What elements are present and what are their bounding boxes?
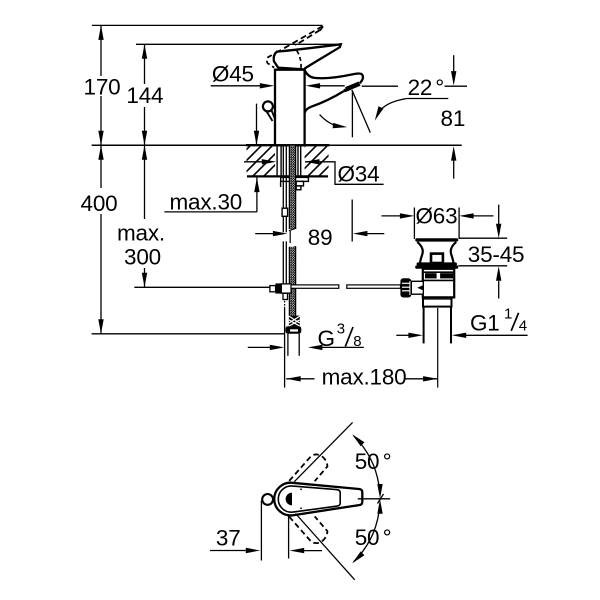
wire: deck bottom line bbox=[247, 175, 328, 177]
wire: handle reference line (144 datum) bbox=[136, 43, 340, 45]
rod clamp bbox=[282, 208, 288, 216]
svg-text:4: 4 bbox=[519, 318, 527, 335]
lever handle raised position (dashed) bbox=[279, 26, 323, 51]
mounting washer below deck bbox=[281, 177, 309, 181]
drain plug neck right bbox=[451, 242, 456, 263]
dim 81 bbox=[453, 55, 455, 72]
svg-text:37: 37 bbox=[216, 525, 241, 550]
svg-text:22: 22 bbox=[408, 75, 433, 100]
dim diam63 bbox=[413, 208, 415, 240]
handle plan recess mark bbox=[286, 493, 292, 506]
svg-text:170: 170 bbox=[84, 74, 121, 99]
plan centerline bbox=[358, 498, 390, 500]
svg-text:°: ° bbox=[435, 75, 444, 100]
drain square tab bbox=[431, 254, 443, 263]
wire: max300 bottom datum bbox=[134, 286, 270, 288]
svg-text:35-45: 35-45 bbox=[468, 242, 525, 267]
lever handle (solid position) bbox=[274, 44, 341, 69]
knob connector bbox=[411, 281, 423, 294]
svg-text:Ø63: Ø63 bbox=[416, 204, 458, 229]
dim 81 reference line bbox=[362, 85, 398, 87]
aerator bbox=[346, 84, 360, 90]
spray flow arc arrow bbox=[320, 115, 343, 127]
svg-text:400: 400 bbox=[81, 191, 118, 216]
svg-text:81: 81 bbox=[441, 106, 466, 131]
svg-text:144: 144 bbox=[126, 83, 163, 108]
G3/8 thread bbox=[287, 334, 289, 356]
dim 37 bbox=[260, 501, 262, 561]
dim 400 bbox=[100, 145, 102, 188]
drain plug head rim bbox=[415, 238, 458, 241]
pop-up rod (vertical, lower) bbox=[282, 241, 284, 284]
drain plug neck left bbox=[417, 242, 422, 263]
pull-rod knob (plan) bbox=[262, 494, 273, 505]
dim max180 bbox=[286, 378, 314, 380]
label 22deg leader bbox=[407, 98, 448, 100]
dim 144 bbox=[144, 44, 146, 84]
dim 89 bbox=[255, 233, 275, 235]
handle rotated +50 (dashed) bbox=[289, 454, 327, 481]
dim max300 bbox=[144, 145, 146, 219]
node: deck cross-section hatch right bbox=[305, 146, 329, 176]
svg-text:8: 8 bbox=[353, 333, 361, 350]
dim 170 bbox=[100, 25, 102, 76]
spout top edge bbox=[305, 70, 363, 83]
knurled adjuster knob bbox=[400, 278, 411, 297]
drain body bbox=[423, 269, 454, 298]
dim diam45 bbox=[211, 85, 262, 87]
hose end connector (lattice) bbox=[289, 316, 300, 327]
angle line upper 50deg bbox=[294, 422, 352, 481]
svg-text:max.: max. bbox=[117, 221, 165, 246]
pop-up rod (vertical, upper) bbox=[282, 145, 284, 232]
svg-text:G1: G1 bbox=[470, 310, 500, 335]
dim G1 1/4 bbox=[396, 334, 409, 336]
spray angle line 22deg bbox=[352, 90, 370, 133]
G3/8 cone nut bbox=[286, 326, 302, 334]
svg-text:300: 300 bbox=[124, 245, 161, 270]
drain collar bbox=[423, 297, 452, 306]
handle rotated -50 (dashed) bbox=[289, 516, 327, 543]
svg-text:max.180: max.180 bbox=[322, 365, 407, 390]
svg-text:G: G bbox=[318, 326, 335, 351]
drain centerline bbox=[437, 308, 439, 388]
svg-text:89: 89 bbox=[308, 225, 333, 250]
label max30 leader bbox=[164, 211, 257, 213]
svg-text:50: 50 bbox=[355, 449, 380, 474]
shank outer walls in deck hole bbox=[276, 145, 278, 176]
angle arc lower bbox=[354, 513, 379, 562]
svg-text:Ø34: Ø34 bbox=[338, 162, 380, 187]
wire: handle-up reference line (170 datum) bbox=[92, 24, 323, 26]
rod lower extension / extension line bbox=[284, 301, 286, 303]
faucet body bbox=[275, 70, 305, 146]
flexible supply hose (braided) upper bbox=[289, 145, 296, 229]
angle line lower 50deg bbox=[296, 514, 355, 580]
drain flange bbox=[417, 262, 457, 265]
handle plan inner edge bbox=[278, 486, 340, 512]
svg-text:3: 3 bbox=[337, 320, 345, 337]
dim diam34 leader bbox=[244, 161, 264, 163]
flexible supply hose (braided) lower bbox=[289, 246, 296, 249]
spout bottom edge bbox=[305, 91, 345, 113]
svg-text:Ø45: Ø45 bbox=[212, 62, 254, 87]
spray reference vertical bbox=[351, 91, 353, 138]
dim G3/8 bbox=[248, 346, 271, 348]
svg-text:°: ° bbox=[383, 525, 392, 550]
svg-text:50: 50 bbox=[355, 525, 380, 550]
horizontal pop-up rod bbox=[291, 285, 339, 288]
drain tailpipe (G1 1/4 thread) bbox=[423, 307, 425, 344]
handle plan outer outline bbox=[274, 483, 362, 516]
svg-text:1: 1 bbox=[504, 306, 512, 323]
node: mounting surface line bbox=[92, 144, 462, 146]
wire: 400 bottom datum bbox=[92, 333, 285, 335]
angle arc upper bbox=[354, 436, 379, 485]
mounting nut below washer bbox=[296, 181, 303, 186]
handle dome hidden edge (dashed) bbox=[297, 51, 301, 69]
rod-to-drain fitting bbox=[270, 286, 276, 292]
node: deck cross-section hatch left bbox=[247, 146, 276, 176]
pull-rod knob bbox=[263, 101, 273, 111]
svg-text:°: ° bbox=[383, 449, 392, 474]
dim 35-45 bbox=[459, 237, 508, 239]
svg-text:max.30: max.30 bbox=[170, 190, 243, 215]
